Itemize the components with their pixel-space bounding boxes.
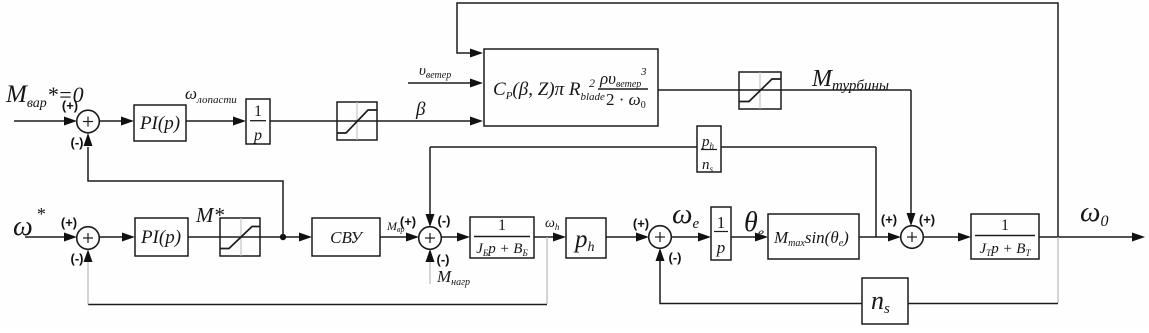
block p_h [566,218,606,258]
wire PI2 through S6 to SVU [188,236,300,238]
wire input omega* [25,236,66,238]
svg-text:(-): (-) [438,213,451,228]
svg-text:1: 1 [254,103,262,120]
svg-text:*: * [36,204,45,224]
wire M_turbine down into summer S8 [910,90,912,214]
summing junction S7 electrical angle [649,226,672,249]
svg-text:p: p [253,127,262,144]
svg-text:1: 1 [717,213,726,232]
wire node up-left feedback to S1 [88,147,283,237]
block SVU [312,218,380,256]
wire p_h to S7 [606,236,637,238]
summing junction S4 blade shaft [419,227,442,250]
block ph/ns gain [697,126,721,172]
summing junction S1 [77,110,100,133]
svg-text:1: 1 [498,217,506,234]
svg-text:СВУ: СВУ [330,228,364,247]
svg-text:PI(p): PI(p) [139,113,180,134]
block PI(p) speed controller [135,218,188,256]
svg-text:(-): (-) [71,251,84,266]
svg-text:β: β [415,99,426,120]
svg-text:p: p [716,238,726,257]
svg-text:(+): (+) [919,212,935,227]
wire ns feedback from omega0 [1057,237,1059,303]
wire SVU to S4 [380,236,407,238]
block turbine inertia 1/(JTp+BT) [971,214,1039,259]
wire ph/ns feedback row [430,146,876,148]
svg-text:PI(p): PI(p) [140,227,181,248]
svg-text:(-): (-) [669,250,682,265]
svg-text:3: 3 [640,66,647,78]
block saturation S6 (torque limiter) [220,218,260,256]
wire M_nagr input to S4 [429,262,431,284]
svg-text:(+): (+) [62,98,78,113]
wire S1 to PI(p) [99,120,122,122]
wire Cp output to M_turbine corner [658,89,911,91]
wire S8 to turbine inertia [923,236,959,238]
wire v_veter input [408,82,471,84]
svg-text:Mmaxsin(θe): Mmaxsin(θe) [773,228,849,249]
wire PI(p) to 1/p [186,120,234,122]
wire Mmax to S8 with tap junction [859,236,889,238]
block ns [862,278,908,324]
wire S5 to PI(p)2 [99,236,123,238]
wire S7 to 1/p2 [671,236,699,238]
block saturation S3 (pitch limiter) [337,102,377,140]
node branch dot [280,234,286,240]
block PI(p) pitch controller [134,105,186,141]
svg-text:(+): (+) [633,216,649,231]
svg-text:2 · ω0: 2 · ω0 [606,90,646,111]
svg-text:(-): (-) [437,252,450,267]
summing junction S8 turbine shaft [901,226,924,249]
block Mmax sin(theta_e) [768,214,859,259]
wire 1/p2 to Mmax block [731,236,756,238]
summing junction S5 speed loop [77,227,100,250]
block integrator 1/p [246,99,270,144]
wire input Mvar [14,120,66,122]
svg-text:(+): (+) [400,214,416,229]
wire omega0 feedback top loop [457,3,1058,237]
wire omega0 output [1039,236,1133,238]
wire S4 to blade inertia block [441,236,458,238]
block saturation torque limiter [739,72,781,109]
wire ns output to S7 [660,261,862,304]
svg-text:2: 2 [589,76,595,90]
wire 1/p through saturation to Cp block (beta) [270,120,471,122]
svg-text:(+): (+) [61,215,77,230]
wire blade inertia to p_h [534,236,554,238]
wire omega_h feedback to S5 [546,237,548,304]
block integrator 1/p electrical [711,207,731,260]
svg-text:(-): (-) [71,135,84,150]
block blade inertia 1/(JBp+BB) [470,217,534,258]
block Cp turbine power [484,49,658,126]
svg-text:(+): (+) [881,212,897,227]
svg-text:1: 1 [1001,217,1009,234]
